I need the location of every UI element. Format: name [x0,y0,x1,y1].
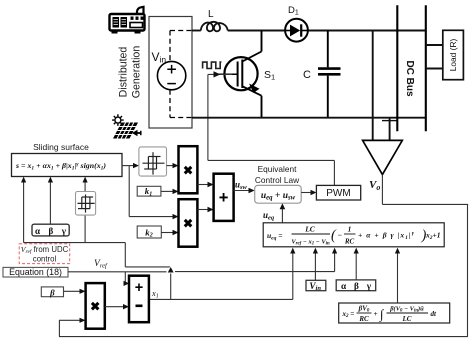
svg-text:α β γ: α β γ [341,281,372,291]
svg-text:RC: RC [358,315,369,323]
top wire [192,30,426,32]
svg-text:+: + [219,189,229,207]
svg-text:s = x1 + αx1 + β|x1|γ sign(x1): s = x1 + αx1 + β|x1|γ sign(x1) [15,161,106,172]
svg-text:1: 1 [348,225,352,234]
svg-text:LC: LC [402,315,412,323]
svg-text:Sliding surface: Sliding surface [33,142,89,152]
svg-text:RC: RC [344,238,355,246]
dashed source box [170,31,192,118]
svg-text:DC Bus: DC Bus [404,60,415,97]
ueq + usw box [255,185,302,203]
beta box [41,287,63,297]
svg-text:C: C [303,69,311,81]
load connectors [426,45,443,69]
multiplier 3 [86,283,105,329]
PWM box [316,185,360,200]
svg-text:✖: ✖ [90,300,100,314]
mult1 to sum [197,184,209,186]
x1 line (sum3 output to ueq box) [149,252,293,299]
svg-text:Equation (18): Equation (18) [9,267,62,277]
Distributed Generation label [118,46,143,99]
x2 equation box [339,303,450,323]
summation 3 [129,276,149,323]
generator icon [110,7,145,34]
to PWM [301,192,312,194]
svg-text:x2+1: x2+1 [425,231,441,241]
gate feedback wire from PWM [208,74,335,185]
svg-text:x2 =: x2 = [342,310,355,319]
diode D1 [285,19,308,42]
transistor S1 [218,31,262,118]
svg-text:β(V0 − Vin)ū: β(V0 − Vin)ū [389,306,424,314]
k1 box [137,186,161,196]
bus vertical line [372,31,374,141]
svg-text:Equivalent: Equivalent [258,164,297,174]
gate arrow [214,71,221,77]
gate drive square wave symbol [203,62,222,68]
bottom wire [192,117,426,119]
capacitor C [318,31,341,118]
Equation (18) box [3,267,68,277]
svg-text:−: − [338,231,343,240]
svg-text:control: control [33,255,57,264]
sat2 to mult1 [167,165,175,167]
svg-text:PWM: PWM [326,188,350,199]
Vo sensor triangle [363,140,403,174]
x1 feedback net (to sliding surface) [24,243,171,300]
sliding output net [122,166,175,217]
multiplier 1 [179,146,198,193]
Vo feedback path [59,175,468,337]
svg-text:+: + [135,280,143,296]
svg-text:Load (R): Load (R) [448,39,458,72]
Vin box [306,280,326,290]
svg-text:β: β [49,287,55,297]
DG box [149,17,192,129]
mult2 to sum [197,209,209,211]
saturation block 2 [139,147,167,176]
svg-text:Generation: Generation [131,46,143,99]
multiplier 2 [179,199,198,247]
Vref from UDC control (red dashed) [19,244,69,264]
svg-text:L: L [208,9,214,20]
alpha beta gamma box 1 [32,224,69,236]
alpha beta gamma box 2 [336,280,376,291]
summation 2 [214,174,234,221]
svg-text:α β γ: α β γ [35,226,67,236]
saturation block 1 [76,192,96,216]
wire stub [382,120,397,122]
svg-text:✖: ✖ [183,217,193,231]
ueq equation box [263,223,444,247]
load box [443,30,464,79]
x1 up arrow with hop [167,267,174,273]
svg-text:Control Law: Control Law [255,175,300,185]
inductor L [201,22,228,31]
sliding surface box [12,154,123,177]
triangle input line 2 [389,118,391,141]
svg-text:LC: LC [304,225,316,234]
usw arrow [234,190,251,192]
svg-text:✖: ✖ [183,164,193,178]
svg-text:+: + [374,310,378,318]
solar icon [112,114,141,138]
input arrows to sliding box [24,181,86,243]
ueq up arrow [281,208,283,223]
Vin source circle [157,61,185,89]
svg-text:Distributed: Distributed [118,47,130,98]
k2 box [137,226,161,238]
sliding surface equation [15,161,106,172]
Vref net [68,252,335,283]
DC bus lines [396,5,398,131]
